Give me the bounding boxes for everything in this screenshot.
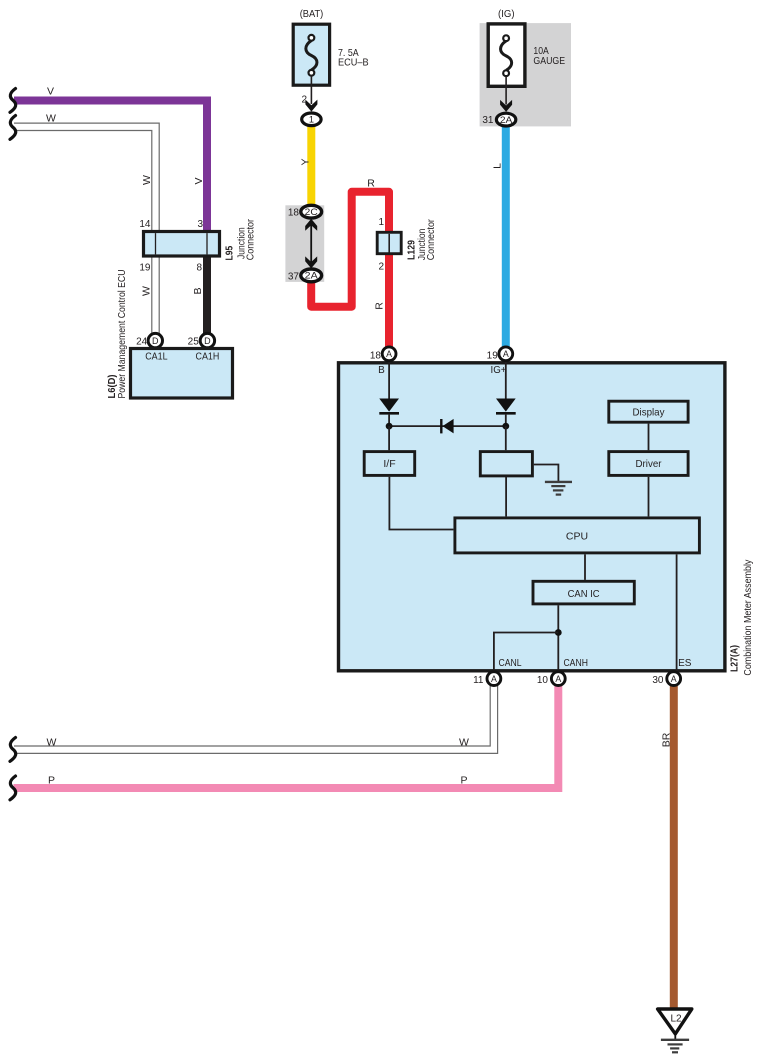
- combination meter assembly box L27(A): [339, 363, 725, 671]
- svg-text:P: P: [48, 774, 55, 786]
- connector oval 2A (IG): [496, 113, 515, 126]
- diode D1: [379, 399, 399, 427]
- svg-text:19: 19: [139, 263, 151, 274]
- fuse IG arrowhead: [500, 100, 512, 112]
- svg-text:W: W: [141, 286, 153, 296]
- svg-text:L: L: [492, 163, 504, 169]
- svg-text:Y: Y: [300, 158, 312, 165]
- svg-text:V: V: [193, 177, 205, 184]
- wire R red from 2A via loop through L129 to pin 18: [311, 192, 389, 349]
- connector oval 2C: [301, 205, 322, 218]
- svg-text:37: 37: [288, 272, 300, 283]
- svg-text:18: 18: [370, 350, 382, 361]
- svg-text:25: 25: [188, 337, 200, 348]
- ECU pin 24 circle D: [148, 333, 162, 347]
- wire BR brown from pin 30 to ground: [670, 684, 678, 1009]
- wire Y yellow from fuse oval 1 to 2C: [307, 124, 315, 208]
- svg-text:1: 1: [378, 217, 384, 228]
- L95 Junction Connector label: [236, 218, 256, 260]
- break squiggle W wire bottom: [10, 738, 16, 762]
- svg-text:1: 1: [309, 115, 314, 125]
- block Display: [609, 401, 688, 422]
- connector oval 1: [302, 113, 321, 126]
- break squiggle W wire top: [10, 116, 16, 140]
- svg-text:A: A: [555, 674, 561, 684]
- wire pin18 to diode D1: [388, 362, 390, 399]
- wire dot left to I/F: [388, 426, 390, 450]
- fuse BAT pin 2 lead: [310, 76, 312, 105]
- Power Management Control ECU box: [131, 349, 233, 399]
- svg-text:A: A: [386, 349, 392, 359]
- L129 inner divider: [388, 234, 390, 253]
- svg-text:GAUGE: GAUGE: [533, 55, 565, 67]
- wire Display to Driver: [648, 424, 650, 451]
- svg-text:CA1H: CA1H: [196, 350, 220, 362]
- svg-text:A: A: [491, 674, 497, 684]
- svg-text:31: 31: [482, 115, 494, 126]
- svg-text:Combination Meter Assembly: Combination Meter Assembly: [742, 559, 754, 676]
- wire W from L95 to pin 24: [151, 256, 160, 335]
- L95 inner divider right: [206, 233, 208, 254]
- svg-text:CPU: CPU: [566, 531, 588, 543]
- svg-text:IG+: IG+: [491, 365, 507, 376]
- svg-text:R: R: [374, 302, 386, 310]
- svg-text:ES: ES: [678, 658, 692, 669]
- svg-text:2A: 2A: [500, 115, 513, 125]
- svg-text:CANL: CANL: [498, 658, 521, 669]
- svg-text:V: V: [47, 86, 54, 98]
- svg-text:Display: Display: [633, 407, 666, 419]
- wire CPU to CAN IC: [584, 554, 586, 580]
- wire V horizontal+vertical (violet): [14, 101, 207, 233]
- wire pin19 to diode D2: [505, 362, 507, 399]
- svg-text:2: 2: [378, 262, 384, 273]
- ground L2 triangle: [658, 1009, 692, 1034]
- wire dot right to regulator: [505, 426, 507, 450]
- fuse BAT box: [293, 24, 329, 85]
- svg-text:P: P: [460, 774, 467, 786]
- svg-text:3: 3: [197, 219, 203, 230]
- wire P pink CANH bottom: [14, 684, 559, 788]
- wire W CANL bottom (double line): [13, 684, 494, 750]
- junction node dot right: [502, 423, 509, 430]
- diode D3 pointing left: [441, 419, 453, 434]
- wire Driver to CPU: [648, 477, 650, 517]
- svg-text:D: D: [204, 336, 211, 346]
- svg-text:BR: BR: [661, 732, 673, 747]
- svg-text:10: 10: [537, 675, 549, 686]
- wire CAN IC to junction: [557, 605, 559, 671]
- wire cross link y426: [389, 425, 506, 427]
- block CAN IC: [533, 581, 634, 604]
- meter pin 18 circle A: [382, 347, 396, 361]
- block Driver: [609, 452, 688, 476]
- fuse IG gray background: [480, 23, 571, 126]
- svg-text:A: A: [671, 674, 677, 684]
- svg-text:A: A: [503, 349, 509, 359]
- junction connector L129 box: [377, 232, 401, 253]
- svg-text:Connector: Connector: [246, 218, 257, 260]
- meter pin 19 circle A: [499, 347, 513, 361]
- svg-text:W: W: [141, 175, 153, 185]
- svg-text:19: 19: [487, 350, 499, 361]
- connector oval 2A: [301, 269, 322, 282]
- svg-text:D: D: [152, 336, 159, 346]
- svg-text:11: 11: [473, 675, 484, 686]
- svg-text:W: W: [47, 736, 57, 748]
- svg-text:8: 8: [196, 263, 202, 274]
- ground L2 stem and bars: [661, 1033, 689, 1052]
- wire junction to CANL pin: [494, 633, 558, 672]
- svg-text:2A: 2A: [305, 271, 318, 281]
- junction dot CANH: [555, 629, 562, 636]
- svg-text:B: B: [378, 365, 385, 376]
- block CPU: [455, 518, 700, 553]
- svg-text:L27(A): L27(A): [729, 645, 741, 672]
- svg-text:Power Management Control ECU: Power Management Control ECU: [116, 270, 128, 399]
- svg-text:14: 14: [139, 219, 151, 230]
- gray box 2C-2A: [285, 205, 324, 282]
- svg-text:L95: L95: [224, 246, 236, 261]
- wire I/F to CPU: [389, 477, 453, 530]
- break squiggle P wire: [10, 776, 16, 800]
- svg-text:24: 24: [136, 337, 148, 348]
- L95 inner divider left: [155, 233, 157, 254]
- break squiggle V wire: [10, 89, 16, 113]
- svg-text:(IG): (IG): [498, 8, 515, 20]
- block regulator (unlabeled): [480, 452, 532, 476]
- svg-text:W: W: [459, 736, 469, 748]
- svg-text:L129: L129: [406, 240, 418, 260]
- fuse BAT symbol: [306, 35, 317, 76]
- svg-text:Driver: Driver: [636, 458, 662, 470]
- ECU pin 25 circle D: [200, 333, 214, 347]
- fuse IG box: [488, 24, 525, 86]
- svg-text:CANH: CANH: [563, 658, 588, 669]
- block I/F: [364, 452, 415, 476]
- double arrow between 2C and 2A: [305, 219, 317, 269]
- wire B black from L95 to pin 25: [203, 256, 211, 335]
- ground stub from regulator: [534, 465, 559, 482]
- wire L blue from 2A(IG) to pin 19: [502, 124, 510, 349]
- svg-text:I/F: I/F: [383, 458, 395, 470]
- fuse BAT arrowhead: [305, 100, 317, 112]
- junction node dot left: [386, 423, 393, 430]
- svg-text:18: 18: [288, 208, 300, 219]
- svg-text:30: 30: [652, 675, 664, 686]
- svg-text:W: W: [46, 112, 56, 124]
- svg-text:CA1L: CA1L: [145, 350, 168, 362]
- svg-text:ECU–B: ECU–B: [338, 56, 369, 68]
- meter pin 30 circle A: [667, 672, 681, 686]
- svg-text:2C: 2C: [305, 207, 319, 217]
- svg-text:CAN IC: CAN IC: [568, 588, 600, 600]
- svg-text:B: B: [192, 287, 204, 294]
- wire regulator to CPU: [505, 477, 507, 517]
- svg-text:L2: L2: [670, 1014, 682, 1025]
- svg-text:(BAT): (BAT): [300, 8, 324, 20]
- meter pin 11 circle A: [487, 672, 501, 686]
- meter pin 10 circle A: [551, 672, 565, 686]
- diode D2: [496, 399, 516, 427]
- fuse IG pin 31 lead: [505, 76, 507, 105]
- svg-text:R: R: [367, 177, 375, 189]
- junction connector L95 box: [144, 232, 220, 257]
- fuse IG symbol: [501, 35, 512, 76]
- chassis ground symbol (inner): [545, 482, 572, 495]
- svg-text:Connector: Connector: [426, 219, 437, 261]
- wire CPU to ES pin: [676, 554, 678, 671]
- wire W white top-left (double line): [13, 127, 156, 232]
- L129 Junction Connector label: [417, 219, 437, 261]
